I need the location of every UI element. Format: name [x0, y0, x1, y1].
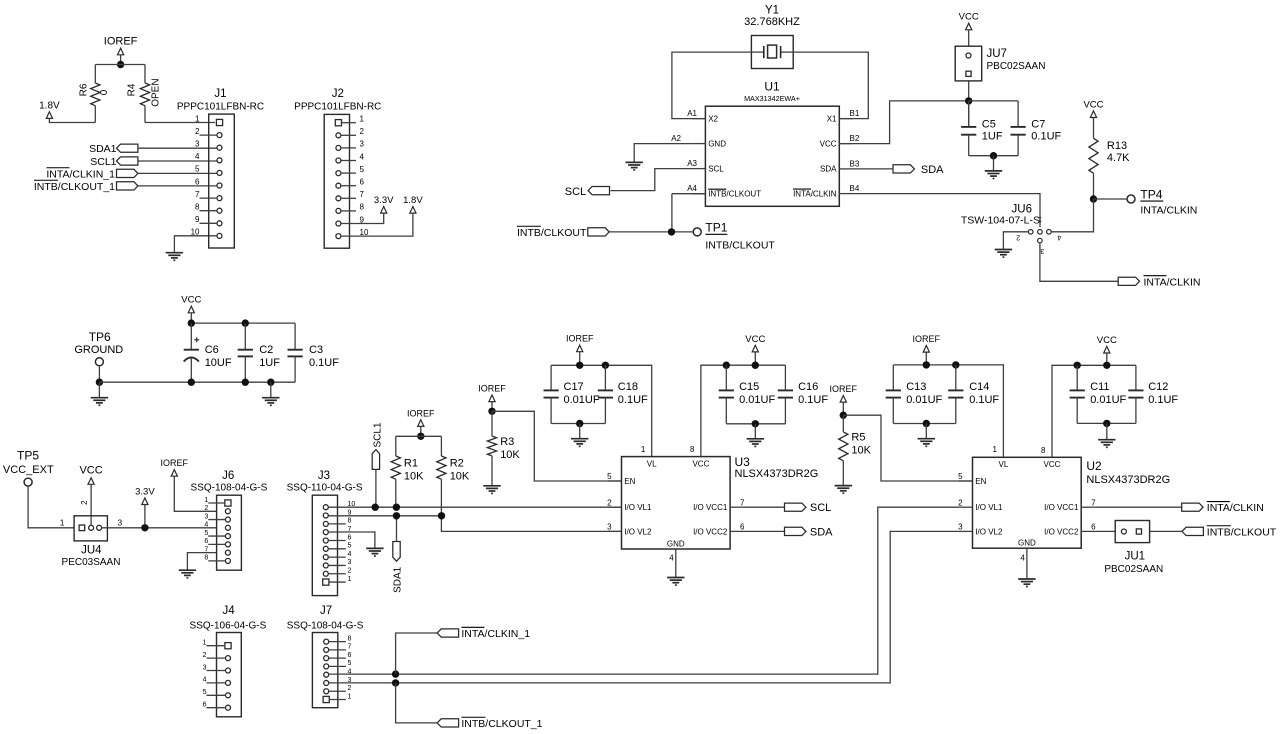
- node VCC/C5 junction: [965, 97, 972, 104]
- svg-text:8: 8: [348, 635, 352, 642]
- power 3.3V (J2 pin 9): [381, 207, 387, 214]
- svg-text:X1: X1: [827, 114, 837, 123]
- svg-text:2: 2: [195, 127, 200, 136]
- svg-text:2: 2: [360, 127, 365, 136]
- wire J7 pin 3 to U2 I/O VL2: [329, 531, 959, 683]
- svg-text:INTB/CLKOUT_1: INTB/CLKOUT_1: [34, 181, 115, 193]
- connector J6: [217, 495, 242, 570]
- svg-text:X2: X2: [708, 114, 718, 123]
- svg-text:TSW-104-07-L-S: TSW-104-07-L-S: [961, 214, 1040, 226]
- ground (TP6): [98, 382, 100, 398]
- svg-text:SCL: SCL: [708, 164, 724, 173]
- svg-text:3: 3: [958, 523, 963, 532]
- capacitor C6 10UF (polarized): [190, 323, 192, 350]
- svg-text:VCC: VCC: [692, 459, 709, 468]
- svg-text:3: 3: [1040, 247, 1044, 254]
- net flag SDA1 (J1): [117, 144, 138, 152]
- svg-text:INTB/CLKOUT: INTB/CLKOUT: [1207, 526, 1277, 538]
- wire crystal left to U1 X2: [672, 52, 752, 119]
- svg-text:7: 7: [1091, 498, 1096, 507]
- wire INTB/CLKOUT flag to TP1: [609, 231, 693, 233]
- wire TP5 to JU4 pin 1: [28, 486, 74, 527]
- svg-text:JU1: JU1: [1125, 551, 1145, 563]
- node VCC stem junction: [752, 362, 759, 369]
- wire junction to TP4: [1094, 198, 1127, 200]
- svg-text:4: 4: [203, 677, 207, 684]
- net flag SCL1 (J1): [117, 157, 138, 165]
- svg-text:3.3V: 3.3V: [374, 195, 394, 206]
- wire J2 pin 10 to 1.8V: [341, 213, 413, 236]
- svg-text:10K: 10K: [851, 445, 871, 457]
- wire J6 pin 7 to ground: [187, 553, 217, 571]
- svg-text:6: 6: [203, 702, 207, 709]
- svg-text:1UF: 1UF: [259, 357, 280, 369]
- crystal Y1 32.768KHZ: [751, 36, 793, 69]
- svg-text:7: 7: [204, 546, 208, 553]
- svg-text:2: 2: [607, 498, 612, 507]
- svg-text:1: 1: [204, 497, 208, 504]
- wire SCL1 to SCL row: [375, 469, 377, 507]
- wire U3 GND to ground: [675, 549, 677, 578]
- svg-text:C18: C18: [618, 381, 638, 393]
- svg-text:GND: GND: [667, 539, 685, 548]
- svg-text:C15: C15: [739, 381, 759, 393]
- wire TP6/C6/C2/C3 bottom rail: [99, 381, 295, 383]
- svg-text:7: 7: [348, 644, 352, 651]
- connector J3: [312, 495, 337, 595]
- svg-text:5: 5: [958, 472, 963, 481]
- node R1 junction (SCL row): [393, 504, 400, 511]
- svg-text:2: 2: [958, 498, 963, 507]
- svg-text:C3: C3: [309, 344, 323, 356]
- svg-text:C13: C13: [906, 381, 926, 393]
- capacitor C12 0.1UF: [1135, 365, 1137, 390]
- ground (C2/C3 rail): [270, 382, 272, 398]
- wire IOREF stem to R5: [842, 402, 844, 415]
- capacitor C2 1UF: [244, 323, 246, 350]
- svg-text:3: 3: [203, 664, 207, 671]
- wire R1/R2 top rail: [396, 435, 442, 437]
- svg-text:2: 2: [348, 685, 352, 692]
- node IOREF junction: [117, 61, 124, 68]
- node C13/C14 ground junction: [923, 420, 930, 427]
- wire U2 GND to ground: [1026, 548, 1028, 579]
- node C17/C18 ground junction: [576, 420, 583, 427]
- svg-text:VCC: VCC: [1097, 335, 1117, 346]
- svg-text:1: 1: [1038, 215, 1042, 222]
- svg-text:VCC: VCC: [745, 334, 765, 345]
- capacitor C17 0.01UF: [550, 365, 552, 390]
- wire IOREF stem: [420, 426, 422, 436]
- svg-text:J2: J2: [332, 88, 344, 100]
- svg-text:GND: GND: [708, 139, 726, 148]
- node C11 top junction: [1074, 362, 1081, 369]
- svg-text:I/O VL2: I/O VL2: [624, 527, 652, 536]
- svg-text:1: 1: [195, 114, 200, 123]
- svg-text:NLSX4373DR2G: NLSX4373DR2G: [735, 468, 819, 480]
- wire U1 INTA/CLKIN (B4) to JU6: [853, 194, 1041, 228]
- svg-text:INTA/CLKIN_1: INTA/CLKIN_1: [46, 168, 115, 180]
- connector J2: [324, 114, 349, 248]
- svg-text:SSQ-108-04-G-S: SSQ-108-04-G-S: [287, 620, 364, 631]
- svg-text:4: 4: [360, 152, 365, 161]
- power VCC (JU7): [966, 23, 972, 30]
- svg-text:10UF: 10UF: [205, 357, 232, 369]
- svg-text:C16: C16: [798, 381, 818, 393]
- jumper JU7 PBC02SAAN: [955, 46, 982, 81]
- svg-text:32.768KHZ: 32.768KHZ: [744, 16, 800, 28]
- op-amp U1 MAX31342EWA+: [705, 106, 839, 206]
- svg-text:9: 9: [195, 215, 200, 224]
- ground (JU6 pin 2): [995, 249, 1012, 251]
- power VCC (C11/C12): [1104, 346, 1110, 353]
- power IOREF (R3): [489, 395, 495, 402]
- power IOREF (C17/C18): [577, 345, 583, 352]
- svg-text:B2: B2: [850, 134, 860, 143]
- svg-text:B1: B1: [850, 109, 860, 118]
- power IOREF (C13/C14): [923, 346, 929, 353]
- wire J2 pin 9 to 3.3V: [341, 213, 384, 223]
- svg-text:6: 6: [204, 538, 208, 545]
- svg-text:IOREF: IOREF: [566, 334, 594, 344]
- svg-text:R1: R1: [404, 457, 418, 469]
- svg-text:1: 1: [348, 693, 352, 700]
- svg-text:0.1UF: 0.1UF: [798, 394, 828, 406]
- svg-text:1.8V: 1.8V: [403, 195, 423, 206]
- wire C5/C7 bottom rail: [969, 155, 1018, 157]
- svg-text:0.1UF: 0.1UF: [1148, 394, 1178, 406]
- svg-text:SCL: SCL: [810, 502, 831, 514]
- svg-text:Y1: Y1: [765, 5, 779, 17]
- svg-text:PPPC101LFBN-RC: PPPC101LFBN-RC: [294, 102, 381, 113]
- net flag INTB/CLKOUT (TP1): [588, 228, 609, 236]
- wire J3 pin 7 to ground: [328, 532, 375, 548]
- node R13/TP4 junction: [1090, 195, 1097, 202]
- ground (C17/C18): [579, 424, 581, 439]
- node C11/C12 ground junction: [1103, 420, 1110, 427]
- node ground stem junction: [267, 379, 274, 386]
- svg-text:SDA1: SDA1: [89, 143, 117, 155]
- svg-text:U2: U2: [1086, 459, 1102, 473]
- svg-text:I/O VL1: I/O VL1: [975, 503, 1003, 512]
- svg-text:C2: C2: [259, 344, 273, 356]
- svg-text:PPPC101LFBN-RC: PPPC101LFBN-RC: [177, 102, 264, 113]
- connector J4: [217, 633, 242, 717]
- svg-text:SCL1: SCL1: [373, 422, 384, 447]
- svg-text:IOREF: IOREF: [104, 36, 138, 48]
- wire U1 A4 to TP1 node: [672, 193, 706, 195]
- capacitor C5 1UF: [968, 101, 970, 127]
- power IOREF (J6): [171, 470, 177, 477]
- node VCC stem junction (C11/C12): [1103, 362, 1110, 369]
- svg-text:IOREF: IOREF: [478, 384, 506, 394]
- jumper JU1 PBC02SAAN: [1115, 521, 1149, 543]
- node C14 top junction: [952, 361, 959, 368]
- ground (U2 GND): [1018, 578, 1035, 580]
- net flag SCL1 (J3): [372, 450, 379, 470]
- svg-text:IOREF: IOREF: [830, 384, 858, 394]
- wire U1 SCL to flag: [611, 169, 693, 191]
- svg-text:5: 5: [607, 472, 612, 481]
- svg-text:8: 8: [348, 518, 352, 525]
- ground (C15/C16): [754, 424, 756, 439]
- svg-text:C5: C5: [982, 118, 996, 130]
- svg-text:10K: 10K: [404, 470, 424, 482]
- wire R3 node to U3 EN: [492, 411, 622, 481]
- wire U1 VCC to C5 rail: [839, 101, 968, 144]
- op-amp U2 NLSX4373DR2G: [973, 457, 1082, 548]
- net flag INTB/CLKOUT_1 (J1): [117, 182, 138, 190]
- node C15/C16 ground junction: [752, 420, 759, 427]
- svg-text:SSQ-106-04-G-S: SSQ-106-04-G-S: [190, 620, 267, 631]
- svg-text:PBC02SAAN: PBC02SAAN: [987, 61, 1046, 72]
- resistor R3 10K: [491, 411, 493, 436]
- svg-text:C7: C7: [1031, 118, 1045, 130]
- svg-text:MAX31342EWA+: MAX31342EWA+: [744, 94, 800, 103]
- svg-text:I/O VCC1: I/O VCC1: [693, 503, 728, 512]
- power VCC (C6 block): [188, 306, 194, 313]
- svg-text:7: 7: [740, 498, 745, 507]
- svg-text:R2: R2: [450, 457, 464, 469]
- node SDA1 junction: [393, 512, 400, 519]
- svg-text:8: 8: [360, 203, 365, 212]
- svg-text:0.1UF: 0.1UF: [618, 394, 648, 406]
- resistor R5 10K: [842, 415, 844, 432]
- node C6 bottom junction: [188, 379, 195, 386]
- svg-text:IOREF: IOREF: [913, 334, 941, 344]
- wire U1 GND to ground: [634, 144, 692, 163]
- svg-text:JU4: JU4: [81, 544, 102, 556]
- wire JU4 pin 3 to J6 pin 4: [102, 527, 217, 529]
- svg-text:3.3V: 3.3V: [135, 486, 155, 497]
- wire R5 node to U2 EN: [843, 415, 972, 481]
- wire VCC rail to C7: [969, 100, 1018, 102]
- power VCC (JU4): [88, 478, 94, 485]
- svg-text:SDA1: SDA1: [393, 566, 404, 593]
- svg-text:INTA/CLKIN_1: INTA/CLKIN_1: [461, 628, 530, 640]
- svg-text:3: 3: [118, 518, 123, 527]
- svg-text:OPEN: OPEN: [151, 78, 162, 106]
- svg-text:5: 5: [360, 165, 365, 174]
- net flag INTA/CLKIN_1 (J7): [437, 629, 458, 637]
- wire R2 to SDA row and U3 I/O VL2: [441, 479, 621, 531]
- svg-text:6: 6: [348, 534, 352, 541]
- capacitor C11 0.01UF: [1076, 365, 1078, 390]
- svg-text:2: 2: [204, 505, 208, 512]
- wire C17/C18 bottom rail: [551, 423, 605, 425]
- svg-text:VCC: VCC: [959, 12, 979, 23]
- net flag SDA (U3): [785, 527, 806, 535]
- svg-text:2: 2: [348, 568, 352, 575]
- svg-text:R6: R6: [79, 83, 90, 96]
- svg-text:1: 1: [992, 445, 997, 454]
- capacitor C7 0.1UF: [1017, 101, 1019, 127]
- svg-text:10K: 10K: [450, 470, 470, 482]
- node C6 top junction: [188, 319, 195, 326]
- wire IOREF stem to R3: [491, 402, 493, 412]
- resistor R2 10K: [440, 436, 442, 456]
- ground (C13/C14): [925, 424, 927, 439]
- node TP6 junction: [96, 379, 103, 386]
- svg-text:VCC: VCC: [1083, 99, 1103, 110]
- node IOREF/R1R2 junction: [417, 433, 424, 440]
- svg-text:INTB/CLKOUT: INTB/CLKOUT: [708, 190, 761, 199]
- wire U3 I/O VCC1 to SCL flag: [744, 506, 785, 508]
- svg-text:1: 1: [641, 445, 646, 454]
- wire junction to INTB/CLKOUT_1 flag: [396, 683, 438, 723]
- svg-text:8: 8: [204, 555, 208, 562]
- wire U2 I/O VCC2 to JU1: [1095, 530, 1115, 532]
- node IOREF stem junction (C13/C14): [923, 361, 930, 368]
- svg-text:4: 4: [204, 522, 208, 529]
- svg-text:INTB/CLKOUT_1: INTB/CLKOUT_1: [461, 718, 542, 730]
- power IOREF (R1/R2): [418, 420, 424, 427]
- wire SDA1 to J1 pin 3: [138, 147, 217, 149]
- wire IOREF rail to R6/R4: [95, 64, 145, 66]
- connector J1: [209, 114, 235, 248]
- svg-text:VL: VL: [647, 459, 657, 468]
- wire R4 to J1 pin 1: [145, 122, 215, 124]
- capacitor C15 0.01UF: [725, 365, 727, 390]
- wire 3.3V stem: [144, 505, 146, 528]
- node R5 junction: [840, 412, 847, 419]
- wire C13/C14 bottom rail: [893, 423, 956, 425]
- svg-text:3: 3: [195, 140, 200, 149]
- power IOREF (R5): [840, 396, 846, 403]
- svg-text:0.01UF: 0.01UF: [1090, 394, 1126, 406]
- ground (J6 pin 7): [179, 569, 196, 571]
- svg-text:TP4: TP4: [1140, 187, 1162, 201]
- svg-text:NLSX4373DR2G: NLSX4373DR2G: [1086, 474, 1170, 486]
- resistor R4: [144, 65, 146, 84]
- svg-text:SSQ-108-04-G-S: SSQ-108-04-G-S: [191, 482, 268, 493]
- wire J3 pin 10 to U3 I/O VL1 (SCL row): [328, 506, 621, 508]
- resistor R1 10K: [395, 436, 397, 456]
- net flag SDA (U1): [853, 168, 894, 170]
- svg-text:3: 3: [204, 513, 208, 520]
- svg-text:1.8V: 1.8V: [39, 101, 60, 112]
- wire JU7 to VCC node: [968, 81, 970, 127]
- power 3.3V (JU4/J6): [142, 498, 148, 505]
- svg-text:1: 1: [60, 518, 65, 527]
- svg-text:VCC: VCC: [79, 465, 102, 477]
- svg-text:IOREF: IOREF: [161, 458, 189, 468]
- svg-text:JU7: JU7: [987, 48, 1007, 60]
- svg-text:6: 6: [1091, 523, 1096, 532]
- net flag SCL (U1): [588, 187, 609, 195]
- svg-text:J3: J3: [318, 470, 330, 482]
- svg-text:0.1UF: 0.1UF: [969, 394, 999, 406]
- wire JU6 pin 2 to ground: [1003, 232, 1028, 250]
- net flag SCL (U3): [785, 503, 806, 511]
- net flag INTA/CLKIN (U2): [1182, 503, 1203, 511]
- svg-text:GROUND: GROUND: [74, 344, 123, 356]
- svg-text:VL: VL: [999, 460, 1009, 469]
- svg-text:5: 5: [195, 165, 200, 174]
- svg-text:B3: B3: [850, 159, 860, 168]
- svg-text:U1: U1: [764, 80, 780, 94]
- jumper JU4 PEC03SAAN: [74, 516, 107, 541]
- svg-text:0.1UF: 0.1UF: [1031, 130, 1061, 142]
- ground (R3): [483, 485, 500, 487]
- svg-text:SDA: SDA: [810, 526, 833, 538]
- svg-text:0.01UF: 0.01UF: [739, 394, 775, 406]
- svg-text:0.01UF: 0.01UF: [564, 394, 600, 406]
- wire IOREF to J6 pin 2: [174, 476, 217, 511]
- svg-text:R3: R3: [500, 436, 514, 448]
- node 3.3V junction: [141, 524, 148, 531]
- svg-text:J6: J6: [222, 470, 234, 482]
- wire C15/C16 bottom rail: [726, 423, 785, 425]
- svg-text:5: 5: [348, 660, 352, 667]
- svg-text:J1: J1: [214, 88, 226, 100]
- wire C15/C16 top rail to U3 VCC pin 8: [701, 365, 786, 456]
- svg-text:3: 3: [360, 140, 365, 149]
- svg-text:INTA/CLKIN: INTA/CLKIN: [793, 189, 837, 198]
- svg-text:6: 6: [195, 177, 200, 186]
- resistor R6: [94, 65, 96, 84]
- wire C13/C14 top rail to U2 VL: [893, 365, 1003, 457]
- svg-text:TP1: TP1: [705, 221, 727, 235]
- wire J1 pin 10 to ground: [174, 236, 217, 253]
- svg-text:8: 8: [1041, 446, 1046, 455]
- svg-text:4.7K: 4.7K: [1107, 152, 1130, 164]
- wire SDA1 to SDA row: [396, 516, 398, 542]
- svg-text:C14: C14: [969, 381, 989, 393]
- node R2 junction (SDA row): [438, 512, 445, 519]
- net flag INTA/CLKIN (JU6): [1118, 277, 1139, 285]
- node C5/C7 ground junction: [990, 152, 997, 159]
- connector J7: [312, 633, 337, 708]
- svg-text:VCC: VCC: [1044, 460, 1061, 469]
- ground (C11/C12): [1106, 423, 1108, 439]
- test point TP5: [24, 478, 32, 486]
- svg-text:A4: A4: [687, 184, 697, 193]
- net flag SDA1 (J3): [393, 542, 400, 562]
- svg-text:INTB/CLKOUT: INTB/CLKOUT: [705, 239, 775, 251]
- svg-text:VCC_EXT: VCC_EXT: [3, 464, 54, 476]
- power 1.8V: [46, 112, 52, 119]
- svg-text:IOREF: IOREF: [407, 408, 435, 418]
- wire SCL1 to J1 pin 4: [138, 160, 217, 162]
- svg-text:1: 1: [348, 576, 352, 583]
- svg-text:10K: 10K: [500, 449, 520, 461]
- svg-text:3: 3: [348, 559, 352, 566]
- svg-text:7: 7: [360, 190, 365, 199]
- svg-text:TP5: TP5: [17, 449, 39, 463]
- svg-text:SSQ-110-04-G-S: SSQ-110-04-G-S: [287, 482, 363, 493]
- svg-text:A3: A3: [687, 159, 697, 168]
- power VCC (R13): [1090, 111, 1096, 118]
- power 1.8V (J2 pin 10): [410, 207, 416, 214]
- svg-text:2: 2: [1016, 233, 1020, 240]
- wire J7 pin 4 to U2 I/O VL1: [329, 507, 959, 674]
- test point TP4: [1127, 195, 1135, 203]
- svg-text:A2: A2: [671, 134, 681, 143]
- svg-text:PEC03SAAN: PEC03SAAN: [62, 557, 121, 568]
- ground (J1 pin 10): [166, 252, 183, 254]
- node TP1 junction: [668, 228, 675, 235]
- op-amp U3 NLSX4373DR2G: [622, 457, 731, 549]
- svg-text:C11: C11: [1090, 381, 1109, 393]
- ground (U3 GND): [667, 577, 684, 579]
- capacitor C16 0.1UF: [784, 365, 786, 390]
- svg-text:C12: C12: [1148, 381, 1168, 393]
- svg-text:R4: R4: [127, 83, 138, 96]
- svg-text:I/O VCC1: I/O VCC1: [1044, 503, 1079, 512]
- svg-text:5: 5: [204, 530, 208, 537]
- svg-text:4: 4: [195, 152, 200, 161]
